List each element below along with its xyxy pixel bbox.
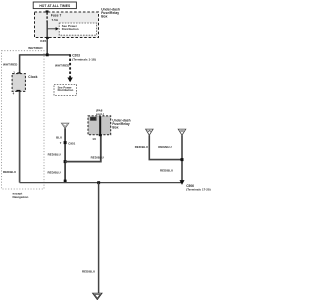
off-page connector triangle B [178,129,186,135]
svg-text:4: 4 [13,91,15,95]
svg-text:RED/BLU: RED/BLU [160,169,173,173]
connector arrowhead at bus end (to C506) [180,180,185,185]
under-dash fuse/relay box (grey, cont.) [88,116,111,135]
label (PA8 cont.) [96,109,104,116]
svg-text:2P2: 2P2 [91,118,96,121]
off-page connector triangle A [146,129,154,135]
wire from fuse down to terminal K35 [46,22,48,55]
svg-text:BLU: BLU [56,135,62,139]
svg-text:RED/BLU: RED/BLU [3,170,16,174]
See Power Distribution box (lower) [54,85,77,96]
terminal tick clock bottom [16,90,20,92]
svg-text:Fuse 7: Fuse 7 [51,14,62,18]
junction at ground bus (BLU wire) [64,180,67,183]
junction under fuse [46,53,49,56]
svg-text:(Terminals 1-18): (Terminals 1-18) [72,58,96,62]
svg-text:WHT/RED: WHT/RED [3,62,18,66]
clock component box [12,74,25,92]
svg-text:10: 10 [92,137,96,141]
connector label C506 (Terminals 17-20) [186,184,210,192]
wire B down to bus end [181,135,183,180]
terminal tick at fuse box top [46,10,49,12]
clock ground wire down [19,92,21,183]
ground bus wire [20,182,182,184]
ground symbol [93,293,102,299]
svg-text:Distribution: Distribution [58,88,74,92]
See Power Distribution box (in fuse box) [59,23,96,35]
junction wire A to wire B [181,158,184,161]
svg-text:HOT AT ALL TIMES: HOT AT ALL TIMES [39,4,71,8]
connector C203 branch wire (dashed, to arrow) [69,54,71,78]
fuse label Fuse 7 / 7.5A [51,14,62,23]
off-page connector triangle (middle) [61,123,68,128]
svg-text:RED/BLU: RED/BLU [48,152,61,156]
label Under-dash Fuse/Relay Box (right of grey box) [112,119,130,130]
junction at center of bus [97,181,100,184]
svg-text:RED/BLU: RED/BLU [135,145,148,149]
svg-text:Distribution: Distribution [62,27,79,31]
main horizontal wire [20,54,71,56]
svg-text:7.5A: 7.5A [52,18,59,22]
branch wire to under-dash fuse/relay box [65,136,101,162]
svg-text:RED/BLU: RED/BLU [82,269,95,273]
wire from triangle to C951 and down to ground bus [64,128,66,182]
connector label C203 (Terminals 1-18) [72,54,96,62]
svg-text:(Terminals 17-20): (Terminals 17-20) [186,188,210,192]
svg-text:WHT/RED: WHT/RED [28,46,43,50]
junction to relay-box branch [64,160,67,163]
svg-text:RED/BLU: RED/BLU [48,170,61,174]
except Navigation dotted enclosure [2,51,45,189]
fuse F7 element (dashed segment) [46,12,48,22]
power source label HOT AT ALL TIMES [33,2,76,9]
terminal tick clock top [17,72,20,74]
svg-text:RED/BLU: RED/BLU [158,145,171,149]
arrow to See Power Distribution [47,27,59,30]
wire A down and right to junction [149,135,182,159]
label Under-dash Fuse/Relay Box (top right) [101,7,120,18]
svg-text:K35: K35 [40,39,46,43]
svg-text:Navigation: Navigation [13,195,29,199]
svg-text:Clock: Clock [28,75,37,79]
connector C951 (square on wire), pin 7 [60,141,76,145]
under-dash fuse/relay box (dashed enclosure) [35,12,99,38]
svg-text:Box: Box [112,125,118,129]
svg-text:WHT/RED: WHT/RED [55,64,70,68]
terminal tick at grey box bottom [99,134,102,136]
label except Navigation [13,191,29,199]
svg-text:C951: C951 [68,141,75,145]
terminal tick at fuse box bottom [46,37,49,39]
svg-text:RED/BLU: RED/BLU [91,156,104,160]
arrowhead into See Power Distribution [67,78,72,83]
svg-text:Box: Box [101,14,107,18]
ground wire down [98,183,100,294]
wire down-left to clock [19,54,21,74]
